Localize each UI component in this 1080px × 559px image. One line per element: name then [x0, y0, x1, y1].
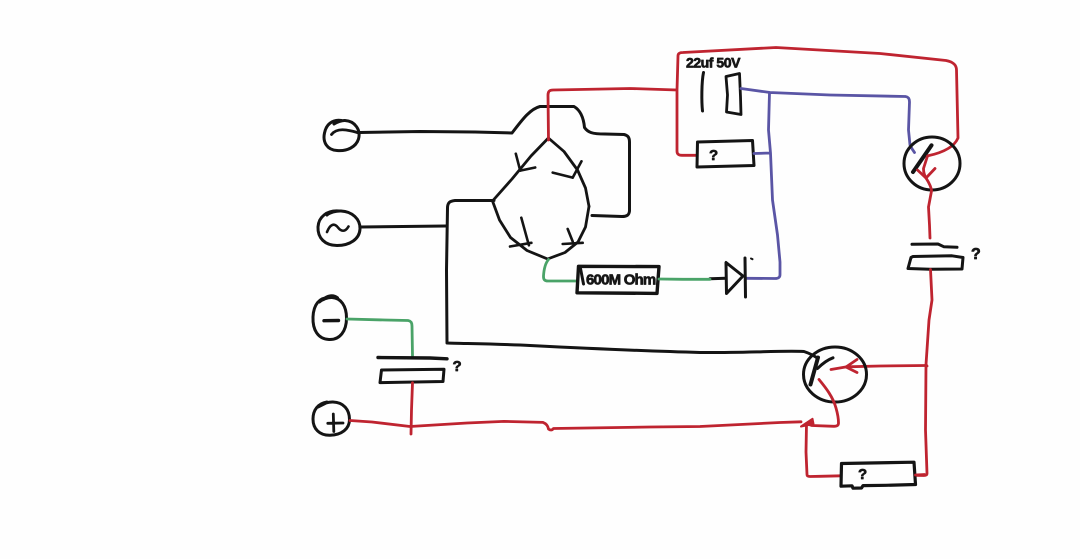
resistor R3 "?" box (bottom) — [841, 462, 916, 488]
wire vertical bus to Q2 base (black) — [447, 201, 819, 359]
diode D3 arrow (lower-left edge) — [510, 218, 531, 247]
transistor Q2 emitter red curve down — [807, 380, 839, 427]
wire green: R2 to D5 anode — [659, 278, 710, 281]
wire red: C2 bottom down, junction to Q2 emitter-arrow and down to R3 — [916, 270, 932, 476]
svg-text:600M Ohm: 600M Ohm — [586, 272, 656, 289]
terminal J3 (minus blob) — [313, 296, 347, 340]
transistor Q1 (top right, circle) — [904, 137, 960, 190]
svg-text:?: ? — [453, 358, 462, 375]
transistor Q2 (lower middle, circle) — [804, 347, 867, 402]
svg-text:?: ? — [709, 147, 718, 164]
wire blue: C1 right plate to Q1 base, branch down to D5 cathode — [741, 89, 915, 279]
transistor Q2 base branch curve — [818, 358, 834, 369]
capacitor C2 (right side) plates — [908, 244, 963, 269]
capacitor C1 plates — [702, 73, 741, 115]
wire red: J4 long rail to junction — [350, 421, 801, 431]
terminal J1 (top input blob) — [324, 120, 359, 150]
diode D4 arrow (lower-right edge) — [563, 229, 583, 244]
svg-text:?: ? — [858, 466, 867, 483]
wire red: C3 bottom to plus rail — [411, 383, 413, 434]
svg-text:22uf 50V: 22uf 50V — [686, 55, 741, 71]
diode D5 (triangle + cathode bar) — [710, 258, 753, 297]
wire red: R3 right up to C2/Q2 node — [916, 473, 925, 476]
terminal J4 (plus blob) — [313, 402, 350, 435]
resistor R2 tick mark — [581, 269, 584, 285]
svg-text:?: ? — [971, 246, 981, 263]
wire green: J3 to C3 top — [347, 319, 413, 356]
diode D2 arrow (upper-right edge) — [553, 161, 582, 177]
resistor R1 "?" box — [697, 141, 754, 168]
wire J1 to bridge AC1 (black, with hop over bridge top and right ear) — [359, 107, 630, 217]
wire red: junction to Q2 (arrow pointing left) — [831, 360, 926, 373]
junction arrowhead on long red wire — [801, 419, 814, 427]
transistor Q1 base bar — [913, 145, 932, 172]
transistor Q1 emitter (red arrow down) — [918, 156, 936, 238]
wire red: junction down and right to R3 left — [806, 424, 841, 477]
wire green: bridge - output to R2 — [543, 260, 577, 282]
terminal J2 (AC sine source blob) — [318, 211, 360, 246]
wire J2 to vertical bus — [361, 226, 447, 227]
diode D1 arrow (upper-left edge) — [516, 154, 535, 171]
capacitor C3 plates (bottom left) — [378, 358, 447, 383]
wire red: bridge + output up, over to C1 node and across top to Q1 collector — [548, 48, 958, 156]
bridge rectifier BR1 (diamond) — [493, 138, 590, 259]
transistor Q2 base bar — [811, 358, 819, 385]
resistor R2 box — [577, 266, 659, 293]
